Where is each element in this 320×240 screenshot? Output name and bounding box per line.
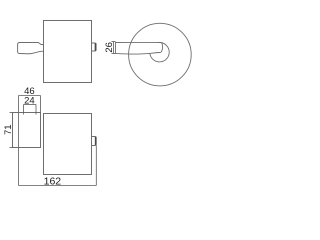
svg-text:26: 26 [104,42,115,53]
svg-text:24: 24 [24,96,35,107]
svg-text:162: 162 [44,176,62,188]
svg-text:71: 71 [3,124,14,135]
